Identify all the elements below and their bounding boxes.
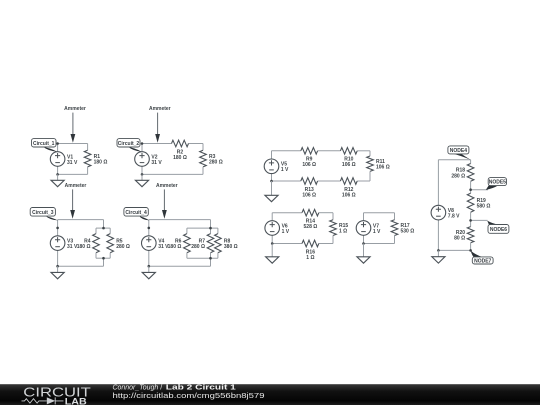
wire V4 top terminal	[148, 220, 150, 236]
junction circuit4 bracket top node	[209, 227, 212, 230]
wire circuit4 drop to bracket	[210, 220, 212, 229]
wire circuit3 right drop to bracket	[103, 220, 105, 229]
svg-text:NODE6: NODE6	[490, 227, 507, 233]
node label NODE7	[471, 251, 493, 265]
junction v8 ground node	[437, 249, 440, 252]
wire circuit3 bracket to bottom	[103, 258, 105, 266]
wire V1 top terminal	[57, 144, 59, 152]
resistor R9	[301, 148, 318, 169]
wire V1 bottom terminal	[57, 166, 59, 174]
svg-text:180 Ω: 180 Ω	[168, 244, 182, 250]
svg-text:1 Ω: 1 Ω	[339, 229, 347, 235]
node label Circuit_4	[124, 208, 149, 221]
ground circuit3	[51, 272, 64, 278]
junction circuit3 bracket top node	[102, 227, 105, 230]
resistor R1	[84, 144, 107, 175]
svg-text:280 Ω: 280 Ω	[191, 244, 205, 250]
wire v5 ground stem	[271, 181, 273, 195]
svg-text:Ammeter: Ammeter	[156, 183, 178, 189]
resistor R4	[77, 228, 100, 258]
junction NODE5	[469, 188, 472, 191]
wire V3 bottom terminal	[57, 250, 59, 266]
wire circuit4 bracket to bottom	[210, 258, 212, 266]
resistor R20	[454, 220, 474, 250]
wire V2 bottom terminal	[141, 166, 143, 174]
junction circuit3 bracket bottom node	[102, 257, 105, 260]
resistor R8	[215, 228, 238, 258]
wire v6 bottom seg1	[272, 243, 302, 245]
wire circuit3 ground stem	[57, 266, 59, 272]
ground v7	[357, 257, 370, 263]
wire V6 top terminal	[271, 213, 273, 221]
wire circuit1 top	[58, 143, 88, 145]
ammeter AM1 (arrow into circuit1 top wire)	[64, 106, 86, 143]
svg-text:Ammeter: Ammeter	[149, 106, 171, 112]
ground v8	[432, 257, 445, 263]
wire v7 ground stem	[363, 244, 365, 257]
node label Circuit_2	[117, 139, 142, 152]
node label Circuit_1	[32, 139, 58, 152]
junction circuit3 bottom node	[56, 265, 59, 268]
resistor R3	[200, 144, 223, 175]
wire V4 bottom terminal	[148, 250, 150, 266]
wire v5 top seg1	[272, 150, 301, 152]
wire v5 bottom seg3	[357, 180, 370, 182]
wire circuit3 parallel bracket top	[96, 227, 110, 229]
wire v5 top seg2	[318, 150, 341, 152]
resistor R13	[301, 178, 318, 199]
junction NODE7	[469, 249, 472, 252]
ammeter AM4 (arrow into circuit4 top wire)	[156, 183, 178, 219]
svg-text:Circuit_2: Circuit_2	[118, 141, 140, 147]
svg-text:530 Ω: 530 Ω	[401, 229, 415, 235]
wire v7 top	[364, 212, 395, 214]
wire circuit3 parallel bracket bottom	[96, 257, 110, 259]
svg-text:106 Ω: 106 Ω	[302, 162, 316, 168]
junction circuit4 bottom node	[148, 265, 151, 268]
resistor R2	[172, 140, 189, 161]
svg-text:LAB: LAB	[65, 396, 87, 405]
wire v6 top seg2	[319, 212, 333, 214]
svg-text:Circuit_1: Circuit_1	[33, 141, 55, 147]
wire circuit4 top	[149, 219, 211, 221]
junction V7 ground node	[362, 242, 365, 245]
wire circuit1 bottom	[58, 173, 88, 175]
resistor R10	[340, 148, 357, 169]
CircuitLab logo schematic line (resistor + diode)	[22, 397, 64, 404]
wire v5 bottom seg2	[318, 180, 341, 182]
ground v6	[266, 257, 279, 263]
junction circuit4 bracket bottom node	[209, 257, 212, 260]
svg-text:Ammeter: Ammeter	[65, 183, 87, 189]
voltage source V2	[135, 152, 163, 167]
wire v6 bottom seg2	[319, 243, 333, 245]
svg-text:580 Ω: 580 Ω	[477, 204, 491, 210]
wire V5 bottom terminal	[271, 174, 273, 181]
ground circuit2	[135, 180, 148, 186]
resistor R12	[340, 178, 357, 199]
node label Circuit_3	[30, 208, 58, 221]
svg-text:106 Ω: 106 Ω	[376, 165, 390, 171]
wire v7 bottom	[364, 243, 395, 245]
junction V5 ground node	[270, 180, 273, 183]
svg-text:31 V: 31 V	[151, 160, 162, 166]
wire circuit3 bottom	[58, 265, 104, 267]
svg-text:http://circuitlab.com/cmg556bn: http://circuitlab.com/cmg556bn8j579	[113, 391, 265, 400]
voltage source V5	[264, 159, 289, 174]
wire v5 top seg3	[357, 150, 370, 152]
wire circuit2 ground stem	[141, 174, 143, 180]
wire v6 top seg1	[272, 212, 302, 214]
ammeter AM2 (arrow into circuit2 top wire)	[149, 106, 171, 143]
svg-text:Ammeter: Ammeter	[64, 106, 86, 112]
wire v8 bottom	[438, 249, 470, 251]
junction V6 ground node	[271, 242, 274, 245]
svg-text:7.8 V: 7.8 V	[448, 214, 460, 220]
junction V3 label node	[56, 227, 59, 230]
wire circuit3 top	[58, 219, 104, 221]
resistor R7	[191, 228, 214, 258]
wire v5 bottom seg1	[272, 180, 301, 182]
wire V3 top terminal	[57, 220, 59, 236]
wire V7 top terminal	[363, 213, 365, 221]
svg-text:106 Ω: 106 Ω	[342, 192, 356, 198]
resistor R18	[451, 160, 474, 190]
junction NODE6	[469, 219, 472, 222]
svg-text:NODE7: NODE7	[474, 258, 491, 264]
svg-text:106 Ω: 106 Ω	[302, 192, 316, 198]
svg-text:1 V: 1 V	[282, 229, 290, 235]
wire NODE5 stub	[471, 189, 488, 191]
wire V8 top terminal	[437, 160, 439, 206]
svg-text:NODE5: NODE5	[489, 180, 506, 186]
voltage source V8	[431, 205, 460, 220]
voltage source V1	[50, 152, 78, 167]
svg-text:106 Ω: 106 Ω	[342, 162, 356, 168]
wire circuit2 bottom	[142, 173, 203, 175]
wire v6 ground stem	[271, 244, 273, 257]
voltage source V4	[142, 236, 170, 251]
junction circuit1 bottom node	[56, 173, 59, 176]
wire circuit1 ground stem	[57, 174, 59, 180]
svg-text:1 Ω: 1 Ω	[306, 255, 314, 261]
ground circuit4	[142, 272, 155, 278]
wire circuit4 parallel bracket top	[187, 227, 218, 229]
wire V6 bottom terminal	[271, 235, 273, 243]
wire circuit4 ground stem	[148, 266, 150, 272]
wire V2 top terminal	[141, 144, 143, 152]
svg-text:180 Ω: 180 Ω	[94, 159, 108, 165]
junction circuit2 bottom node	[141, 173, 144, 176]
resistor R17	[391, 213, 414, 244]
wire circuit2 top right segment	[189, 143, 204, 145]
svg-text:1 V: 1 V	[281, 167, 289, 173]
svg-text:380 Ω: 380 Ω	[224, 244, 238, 250]
svg-text:Circuit_4: Circuit_4	[125, 210, 147, 216]
voltage source V3	[50, 236, 78, 251]
ammeter AM3 (arrow into circuit3 top wire)	[65, 183, 87, 219]
svg-text:180 Ω: 180 Ω	[173, 155, 187, 161]
node label NODE4	[448, 146, 471, 160]
resistor R16	[302, 240, 319, 261]
junction V4 label node	[148, 227, 151, 230]
voltage source V6	[265, 221, 290, 236]
footer bar	[0, 384, 540, 405]
junction circuit1 top-left node	[56, 142, 59, 145]
wire V5 top terminal	[271, 151, 273, 159]
svg-text:280 Ω: 280 Ω	[209, 159, 223, 165]
resistor R19	[467, 190, 490, 221]
node label NODE5	[486, 178, 507, 190]
wire circuit2 top left segment	[142, 143, 172, 145]
svg-text:80 Ω: 80 Ω	[454, 236, 465, 242]
svg-text:1 V: 1 V	[373, 229, 381, 235]
wire V7 bottom terminal	[363, 235, 365, 243]
svg-text:Circuit_3: Circuit_3	[32, 210, 54, 216]
junction circuit2 top-left node	[141, 142, 144, 145]
svg-text:280 Ω: 280 Ω	[116, 244, 130, 250]
voltage source V7	[356, 221, 381, 236]
svg-text:280 Ω: 280 Ω	[451, 173, 465, 179]
wire circuit4 parallel bracket bottom	[187, 257, 218, 259]
ground circuit1	[51, 180, 64, 186]
wire V8 bottom terminal	[437, 220, 439, 251]
resistor R11	[367, 151, 390, 181]
resistor R6	[168, 228, 191, 258]
resistor R14	[302, 209, 319, 230]
svg-text:528 Ω: 528 Ω	[304, 224, 318, 230]
resistor R5	[107, 228, 130, 258]
wire NODE6 stub	[471, 219, 488, 221]
wire v8 ground stem	[437, 250, 439, 256]
wire v8 top	[438, 159, 470, 161]
resistor R15	[330, 213, 349, 244]
ground v5	[265, 195, 278, 201]
node label NODE6	[487, 221, 509, 234]
svg-text:NODE4: NODE4	[450, 148, 467, 154]
svg-text:180 Ω: 180 Ω	[77, 244, 91, 250]
svg-text:31 V: 31 V	[67, 160, 78, 166]
wire circuit4 bottom	[149, 265, 211, 267]
